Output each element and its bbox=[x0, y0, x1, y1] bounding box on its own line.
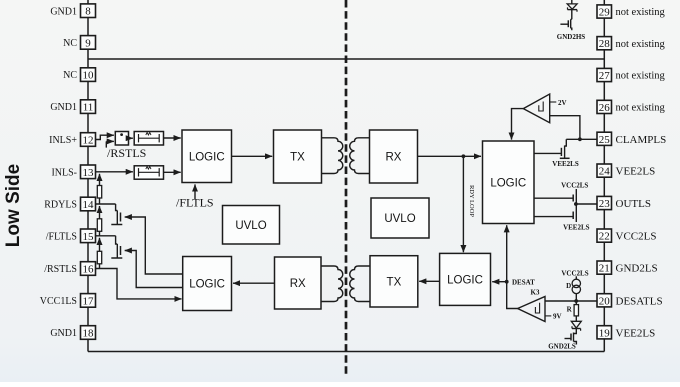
svg-text:/FLTLS: /FLTLS bbox=[46, 231, 77, 242]
svg-text:RX: RX bbox=[386, 152, 402, 164]
svg-text:GND1: GND1 bbox=[50, 102, 77, 113]
svg-text:UVLO: UVLO bbox=[384, 213, 415, 225]
svg-text:9: 9 bbox=[85, 37, 91, 49]
svg-text:VEE2LS: VEE2LS bbox=[616, 166, 656, 178]
svg-text:GND1: GND1 bbox=[50, 6, 77, 17]
svg-text:NC: NC bbox=[63, 70, 77, 81]
svg-text:17: 17 bbox=[83, 295, 95, 307]
svg-text:16: 16 bbox=[83, 264, 95, 276]
svg-text:INLS-: INLS- bbox=[51, 167, 77, 178]
svg-text:GND1: GND1 bbox=[50, 328, 77, 339]
svg-text:/RSTLS: /RSTLS bbox=[107, 146, 146, 160]
svg-text:GND2LS: GND2LS bbox=[616, 263, 658, 275]
svg-text:2V: 2V bbox=[558, 99, 567, 107]
svg-text:DESAT: DESAT bbox=[512, 279, 535, 287]
svg-text:29: 29 bbox=[599, 7, 611, 19]
svg-text:VCC2LS: VCC2LS bbox=[561, 182, 588, 190]
svg-text:OUTLS: OUTLS bbox=[616, 198, 651, 210]
svg-text:14: 14 bbox=[83, 199, 95, 211]
svg-text:RDYLS: RDYLS bbox=[44, 200, 77, 211]
svg-text:VCC2LS: VCC2LS bbox=[561, 269, 588, 277]
svg-text:VCC1LS: VCC1LS bbox=[40, 296, 77, 307]
svg-text:28: 28 bbox=[599, 38, 611, 50]
svg-text:LOGIC: LOGIC bbox=[189, 279, 225, 291]
svg-text:VEE2LS: VEE2LS bbox=[552, 160, 579, 168]
svg-text:GND2LS: GND2LS bbox=[548, 342, 576, 350]
svg-text:25: 25 bbox=[599, 134, 611, 146]
svg-text:13: 13 bbox=[83, 167, 95, 179]
svg-text:Low Side: Low Side bbox=[3, 164, 24, 247]
svg-text:UVLO: UVLO bbox=[235, 220, 266, 232]
svg-text:24: 24 bbox=[599, 166, 611, 178]
svg-text:22: 22 bbox=[599, 231, 610, 243]
svg-text:CLAMPLS: CLAMPLS bbox=[616, 134, 667, 146]
svg-text:not existing: not existing bbox=[616, 103, 666, 114]
svg-text:VEE2LS: VEE2LS bbox=[563, 224, 590, 232]
svg-text:not existing: not existing bbox=[616, 71, 666, 82]
svg-text:8: 8 bbox=[85, 6, 91, 18]
svg-text:26: 26 bbox=[599, 102, 611, 114]
svg-text:LOGIC: LOGIC bbox=[447, 274, 483, 286]
svg-text:9V: 9V bbox=[553, 313, 562, 321]
svg-text:23: 23 bbox=[599, 198, 611, 210]
svg-text:10: 10 bbox=[83, 70, 95, 82]
svg-text:DESATLS: DESATLS bbox=[616, 295, 663, 307]
svg-text:12: 12 bbox=[83, 135, 94, 147]
svg-text:/RSTLS: /RSTLS bbox=[44, 264, 77, 275]
svg-text:21: 21 bbox=[599, 263, 610, 275]
svg-text:K3: K3 bbox=[531, 289, 540, 297]
svg-text:TX: TX bbox=[290, 152, 305, 164]
svg-text:18: 18 bbox=[83, 328, 95, 340]
svg-text:INLS+: INLS+ bbox=[49, 135, 77, 146]
svg-text:TX: TX bbox=[387, 276, 402, 288]
svg-text:11: 11 bbox=[83, 102, 94, 114]
svg-text:20: 20 bbox=[599, 295, 611, 307]
svg-text:LOGIC: LOGIC bbox=[490, 177, 526, 189]
svg-text:D: D bbox=[566, 282, 571, 290]
svg-text:GND2HS: GND2HS bbox=[557, 33, 586, 41]
svg-text:15: 15 bbox=[83, 231, 95, 243]
svg-text:VEE2LS: VEE2LS bbox=[616, 327, 656, 339]
svg-text:RX: RX bbox=[290, 278, 306, 290]
svg-text:27: 27 bbox=[599, 70, 611, 82]
svg-text:NC: NC bbox=[63, 38, 77, 49]
svg-text:VCC2LS: VCC2LS bbox=[616, 231, 657, 243]
svg-text:not existing: not existing bbox=[616, 7, 666, 18]
svg-text:19: 19 bbox=[599, 327, 611, 339]
svg-text:LOGIC: LOGIC bbox=[189, 151, 225, 163]
svg-text:not existing: not existing bbox=[616, 39, 666, 50]
svg-text:RDY LOOP: RDY LOOP bbox=[468, 185, 475, 217]
